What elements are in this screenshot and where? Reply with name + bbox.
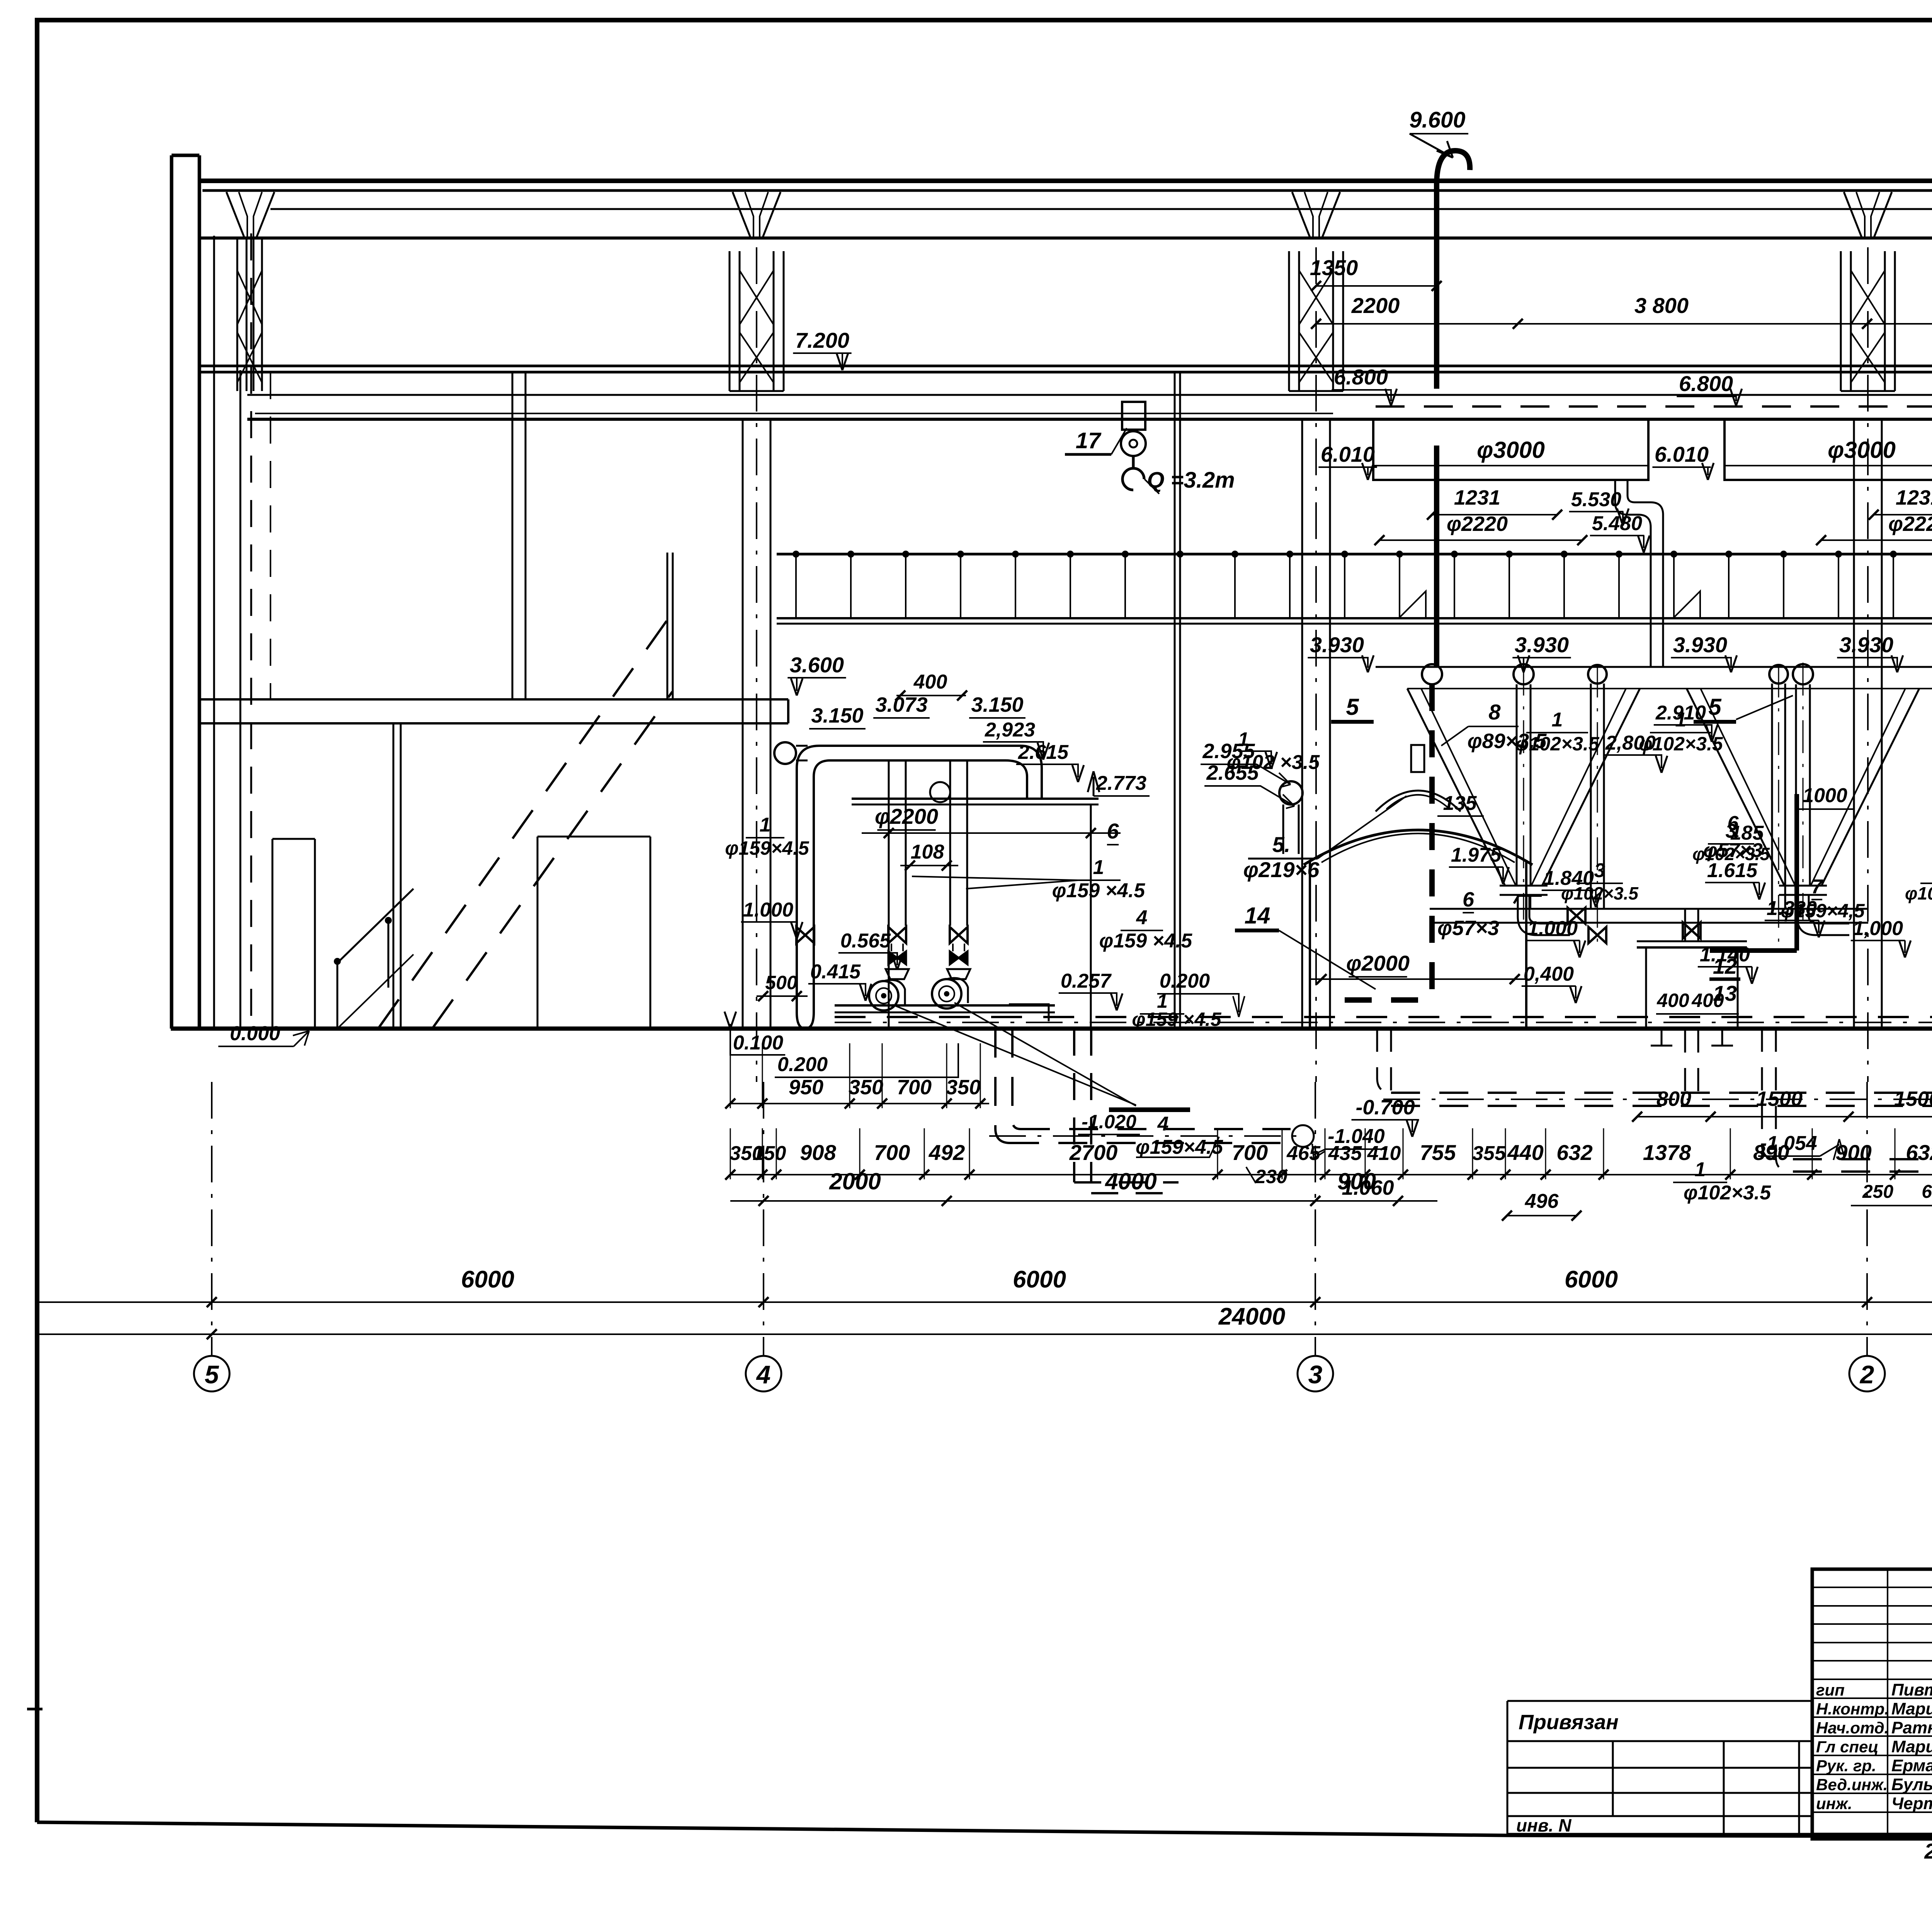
svg-text:-1.040: -1.040 (1328, 1125, 1385, 1148)
svg-text:3.150: 3.150 (971, 693, 1023, 716)
underground pipe 4 φ159x4.5 at -1.020 (995, 1029, 1010, 1143)
title block signature table (1812, 1569, 1932, 1839)
svg-text:Пивторак: Пивторак (1891, 1680, 1932, 1699)
dome tank 14 φ2000 body (1310, 862, 1526, 1027)
svg-text:135: 135 (1443, 792, 1477, 815)
ground floor line 0.000 (171, 1027, 1932, 1031)
svg-text:5: 5 (1708, 694, 1722, 720)
dimension row 2 (2000/4000/900) (730, 1200, 1437, 1202)
svg-text:3.930: 3.930 (1673, 633, 1727, 657)
wall at pump room right (1175, 372, 1180, 1029)
doorway opening right (537, 837, 650, 1029)
riser into tank 12/13 (1684, 909, 1686, 941)
svg-text:φ102×3.5: φ102×3.5 (1905, 883, 1932, 903)
tank 12/13 at x=4260 (1637, 946, 1747, 949)
ceiling line 7.200 lower (201, 371, 1932, 374)
header left stub with cap (774, 742, 796, 764)
axis circle 3 (1315, 1082, 1316, 1356)
svg-text:φ159×4.5: φ159×4.5 (725, 837, 810, 859)
roof truss intermediate line (270, 208, 1932, 210)
column axis 2 lower shaft (1854, 419, 1882, 1029)
svg-text:3.150: 3.150 (811, 704, 863, 727)
svg-text:6: 6 (1107, 819, 1119, 843)
channel end box (1009, 1004, 1049, 1021)
hopper top circle / pipe flange (1514, 664, 1534, 684)
dome left nozzle (1279, 781, 1303, 804)
roof slab top chord (201, 179, 1932, 183)
svg-text:6000: 6000 (461, 1266, 514, 1293)
dimension row 1 (detail) (730, 1174, 1932, 1175)
svg-text:Булычева: Булычева (1891, 1775, 1932, 1794)
valve on left riser (796, 927, 814, 943)
svg-text:2: 2 (1859, 1360, 1874, 1389)
svg-text:1,000: 1,000 (1853, 917, 1903, 940)
svg-text:Марионков: Марионков (1891, 1737, 1932, 1756)
svg-text:440: 440 (1507, 1140, 1543, 1165)
svg-text:230: 230 (1255, 1166, 1287, 1187)
svg-text:0.415: 0.415 (810, 961, 861, 983)
svg-text:1.330: 1.330 (1767, 897, 1817, 920)
dim row 2200/3800/3800/2200 (1316, 323, 1932, 325)
svg-text:108: 108 (911, 841, 944, 863)
column axis 3 battened upper part (1289, 251, 1343, 391)
vent pipe 8 φ89x3.5 bold riser with hook top (1437, 151, 1470, 389)
svg-text:φ2220: φ2220 (1888, 512, 1932, 536)
svg-text:5: 5 (205, 1360, 219, 1389)
svg-text:2,800: 2,800 (1605, 732, 1656, 754)
svg-text:1500: 1500 (1894, 1087, 1932, 1111)
svg-text:7: 7 (1811, 876, 1823, 898)
svg-text:5.530: 5.530 (1571, 488, 1621, 511)
svg-text:φ2220: φ2220 (1447, 512, 1508, 536)
svg-text:908: 908 (800, 1140, 836, 1165)
svg-text:1231: 1231 (1454, 486, 1500, 509)
svg-text:17: 17 (1076, 428, 1102, 453)
svg-text:Чертков: Чертков (1891, 1794, 1932, 1813)
pump 7 left (869, 981, 898, 1010)
partition wall above mezzanine (512, 372, 526, 699)
svg-text:3.073: 3.073 (875, 693, 927, 716)
end circle of pipe 4 (1292, 1125, 1314, 1147)
title block: privyazan box (1507, 1701, 1812, 1834)
svg-text:0.200: 0.200 (1160, 970, 1210, 992)
svg-text:350: 350 (946, 1076, 981, 1099)
svg-text:φ2200: φ2200 (875, 804, 938, 828)
svg-text:12: 12 (1713, 954, 1737, 978)
svg-text:2,923: 2,923 (985, 719, 1035, 741)
svg-text:φ57×3: φ57×3 (1437, 917, 1499, 940)
riser pipes to pumps (888, 760, 890, 926)
svg-text:-1.020: -1.020 (1082, 1111, 1136, 1133)
svg-text:6.800: 6.800 (1679, 371, 1733, 396)
tank φ2200 lid (852, 798, 1099, 800)
svg-text:700: 700 (874, 1140, 910, 1165)
svg-text:0.100: 0.100 (733, 1032, 783, 1054)
svg-text:φ159 ×4.5: φ159 ×4.5 (1052, 879, 1146, 902)
floor channel axis line (835, 1022, 1932, 1023)
svg-text:9.600: 9.600 (1409, 107, 1465, 133)
dimension row: pump area 950/350/700/350 (730, 1103, 989, 1104)
title block outer box (1812, 1569, 1932, 1839)
hopper (hydrocyclone) centered x=4666 (1687, 689, 1919, 886)
svg-text:φ102×3.5: φ102×3.5 (1515, 733, 1600, 755)
svg-text:950: 950 (789, 1076, 823, 1099)
svg-text:Марионков: Марионков (1891, 1699, 1932, 1718)
svg-text:3: 3 (1594, 859, 1605, 882)
svg-text:1.975: 1.975 (1451, 844, 1502, 866)
gate valve over pump x=2322 (888, 927, 906, 943)
dome tank cupola (1376, 791, 1461, 811)
roof V-strut at x=4834 (1844, 192, 1892, 237)
svg-text:0.257: 0.257 (1061, 970, 1112, 992)
battened column at left wall (237, 238, 262, 391)
doorway opening left (272, 839, 315, 1029)
svg-text:5.480: 5.480 (1592, 512, 1642, 535)
svg-text:0.200: 0.200 (777, 1053, 828, 1076)
check valve x=2481 (950, 951, 968, 964)
roof V-strut at x=648 (226, 192, 274, 237)
hopper top circle / pipe flange (1793, 664, 1813, 684)
svg-text:Q =3.2т: Q =3.2т (1147, 468, 1235, 493)
svg-text:1: 1 (1093, 856, 1104, 879)
svg-text:0.000: 0.000 (230, 1022, 280, 1045)
staircase railing (337, 889, 413, 1029)
central drop pipes below pump room (1074, 1029, 1179, 1193)
svg-text:4000: 4000 (1105, 1168, 1156, 1194)
svg-text:Н.контр.: Н.контр. (1816, 1700, 1889, 1718)
riser pipe circle x=4603 (1769, 665, 1788, 684)
svg-text:350: 350 (849, 1076, 883, 1099)
svg-text:1378: 1378 (1643, 1140, 1691, 1165)
svg-text:14: 14 (1245, 903, 1270, 929)
svg-text:632: 632 (1556, 1140, 1592, 1165)
svg-text:6.010: 6.010 (1321, 442, 1375, 466)
svg-text:Привязан: Привязан (1519, 1711, 1619, 1734)
tank 12/13 feet (1651, 1028, 1733, 1046)
svg-text:6.800: 6.800 (1334, 365, 1388, 389)
bold pipe L piece bay 3-2 (1710, 794, 1797, 951)
svg-text:755: 755 (1420, 1140, 1456, 1165)
svg-text:6: 6 (1463, 888, 1475, 911)
dimension row 4 (24000) (212, 1333, 1932, 1335)
svg-text:-0.700: -0.700 (1355, 1096, 1415, 1119)
svg-text:900: 900 (1337, 1168, 1376, 1194)
riser pipe circle x=4134 (1588, 665, 1607, 684)
svg-text:150: 150 (753, 1142, 786, 1165)
svg-text:5: 5 (1346, 694, 1359, 720)
dimension row 3 (6000 spans) (212, 1301, 1932, 1303)
svg-text:φ159×4.5: φ159×4.5 (1136, 1136, 1223, 1158)
leader lines from pumps to label 7 (893, 1003, 1136, 1106)
roof V-strut at x=1958 (733, 192, 781, 237)
svg-text:1: 1 (760, 814, 771, 836)
check valve x=2322 (888, 951, 906, 964)
hoist hook (1122, 456, 1144, 490)
column axis 4 battened upper part (730, 251, 784, 391)
svg-text:инж.: инж. (1816, 1794, 1852, 1813)
dim 1350 between column and pipe (1316, 285, 1437, 287)
svg-text:гип: гип (1816, 1681, 1845, 1699)
svg-text:φ3000: φ3000 (1828, 437, 1896, 463)
svg-text:1: 1 (1695, 1158, 1706, 1181)
U-bend at left riser bottom (797, 1002, 814, 1029)
svg-text:3 800: 3 800 (1634, 293, 1689, 318)
svg-text:-1.054: -1.054 (1760, 1132, 1817, 1155)
hopper support line (1376, 666, 1932, 668)
gate valve over pump x=2481 (950, 927, 968, 943)
svg-text:2.910: 2.910 (1655, 702, 1706, 724)
svg-text:8: 8 (1488, 700, 1501, 724)
svg-text:632: 632 (1906, 1140, 1932, 1165)
crane/monorail beam band (247, 394, 1932, 396)
svg-text:3: 3 (1308, 1360, 1323, 1389)
left border tick lines (37, 1301, 212, 1303)
svg-text:4: 4 (1136, 906, 1148, 929)
svg-text:Рук. гр.: Рук. гр. (1816, 1757, 1876, 1775)
svg-text:1.000: 1.000 (743, 899, 793, 921)
svg-text:355: 355 (1472, 1142, 1506, 1165)
svg-text:500: 500 (765, 972, 798, 993)
dome tank roof (1304, 830, 1532, 865)
svg-text:492: 492 (929, 1140, 965, 1165)
roof V-strut at x=3406 (1292, 192, 1340, 237)
svg-text:1: 1 (1552, 709, 1563, 731)
svg-text:24000: 24000 (1218, 1303, 1285, 1330)
axis circle 4 (763, 1082, 764, 1356)
suction header U-loop (797, 746, 1042, 1002)
roof truss bottom chord (201, 236, 1932, 240)
ceiling line 7.200 upper (201, 365, 1932, 367)
short partition right of stairs (667, 553, 673, 699)
svg-text:3.930: 3.930 (1515, 633, 1569, 657)
svg-text:185: 185 (1730, 822, 1764, 844)
svg-text:1500: 1500 (1756, 1087, 1803, 1111)
drain elbow pipe of tank 1 (1615, 480, 1651, 667)
svg-text:Ермакова: Ермакова (1891, 1756, 1932, 1775)
svg-text:φ102×3.5: φ102×3.5 (1684, 1182, 1771, 1204)
column axis 3 lower shaft (1302, 419, 1330, 1029)
reducer x=2322 (886, 969, 909, 979)
svg-text:3.930: 3.930 (1839, 633, 1893, 657)
svg-text:2200: 2200 (1351, 293, 1400, 318)
valve on riser x=4134 (1588, 927, 1606, 943)
svg-text:6.010: 6.010 (1655, 442, 1709, 466)
svg-text:Гл спец: Гл спец (1816, 1738, 1878, 1756)
svg-text:φ3000: φ3000 (1477, 437, 1545, 463)
svg-text:21179-01 9: 21179-01 9 (1924, 1839, 1932, 1863)
pump 7 right (932, 979, 961, 1009)
svg-text:5.: 5. (1272, 832, 1291, 857)
svg-text:3.600: 3.600 (790, 653, 844, 677)
mezzanine floor 3.600 (199, 699, 788, 723)
svg-text:φ219×6: φ219×6 (1243, 857, 1320, 882)
svg-text:3.930: 3.930 (1310, 633, 1364, 657)
dimension row 800/1500/1500/800 (1637, 1116, 1932, 1117)
svg-text:496: 496 (1525, 1190, 1559, 1213)
svg-text:4: 4 (1157, 1113, 1169, 1135)
svg-text:800: 800 (1656, 1087, 1691, 1111)
svg-text:0.565: 0.565 (840, 930, 891, 952)
svg-text:60: 60 (1922, 1182, 1932, 1202)
svg-text:1.615: 1.615 (1707, 859, 1758, 882)
svg-text:инв. N: инв. N (1516, 1815, 1571, 1835)
svg-text:7.200: 7.200 (795, 328, 849, 352)
hopper center riser pipe (1516, 684, 1518, 886)
tank φ2200 body (889, 804, 1091, 1027)
svg-text:2700: 2700 (1069, 1140, 1118, 1165)
svg-text:φ159 ×4.5: φ159 ×4.5 (1132, 1009, 1221, 1030)
vent pipe 8 dashed inside dome tank (1429, 684, 1435, 1000)
svg-text:400: 400 (1691, 990, 1724, 1011)
svg-text:2.773: 2.773 (1096, 772, 1146, 794)
underground pipe 1 φ102x3.5 at -1.054 (1793, 1158, 1932, 1160)
tap on run (1514, 896, 1542, 909)
svg-text:1.840: 1.840 (1544, 867, 1594, 889)
svg-text:6000: 6000 (1013, 1266, 1066, 1293)
horizontal pipe run bay 3-2 (1430, 908, 1868, 910)
svg-text:1231: 1231 (1896, 486, 1932, 509)
hopper bank top line (1407, 688, 1932, 689)
hopper center riser pipe (1795, 684, 1797, 886)
tank V φ3000 #1 (1373, 419, 1648, 480)
svg-text:φ102 ×3.5: φ102 ×3.5 (1227, 751, 1320, 774)
svg-text:1350: 1350 (1310, 255, 1358, 280)
svg-text:φ159 ×4.5: φ159 ×4.5 (1099, 930, 1193, 952)
column axis 4 lower shaft (743, 419, 770, 1029)
svg-text:700: 700 (1232, 1140, 1268, 1165)
staircase dashed flights (379, 618, 668, 1028)
underground pipe 3 φ102x3.5 at -0.700 (1391, 1092, 1932, 1094)
dashed drop pipes from tanks 12/13 (1685, 1029, 1698, 1093)
hopper (hydrocyclone) centered x=3943 (1407, 689, 1640, 886)
svg-text:250: 250 (1862, 1182, 1893, 1202)
lid small circle (930, 782, 950, 802)
svg-text:2.615: 2.615 (1018, 741, 1069, 764)
extension lines row pump dims (730, 1043, 731, 1108)
monorail hoist trolley 17 (1122, 402, 1145, 430)
pipe 8 top circle (1422, 664, 1442, 684)
service platform railing band 4.500 (777, 553, 1932, 556)
svg-text:Вед.инж.: Вед.инж. (1816, 1776, 1888, 1794)
pump foundation plate (835, 1004, 1055, 1007)
svg-text:1000: 1000 (1803, 784, 1847, 807)
column axis 2 battened upper part (1841, 251, 1895, 391)
cupola vent stub (1411, 745, 1424, 772)
tank V φ3000 #2 (1725, 419, 1932, 480)
svg-text:Нач.отд.: Нач.отд. (1816, 1719, 1889, 1737)
svg-text:1.000: 1.000 (1527, 917, 1578, 940)
svg-text:6000: 6000 (1565, 1266, 1618, 1293)
svg-text:φ2000: φ2000 (1346, 951, 1410, 975)
svg-text:400: 400 (913, 671, 947, 693)
svg-text:1: 1 (1238, 728, 1249, 750)
partition wall below mezzanine (393, 723, 401, 1029)
roof slab second line (202, 189, 1932, 192)
svg-text:2000: 2000 (829, 1168, 881, 1194)
reducer x=2481 (947, 969, 970, 979)
left wall (172, 155, 199, 1029)
axis circle 5 (211, 1082, 213, 1356)
svg-text:4: 4 (756, 1360, 771, 1389)
svg-text:400: 400 (1656, 990, 1689, 1011)
leader from 1 φ159 to pipes (912, 876, 1078, 889)
floor channel dashed pipe (835, 1016, 1932, 1018)
axis circle 2 (1866, 1082, 1868, 1356)
svg-text:Ратников: Ратников (1891, 1718, 1932, 1737)
svg-text:700: 700 (897, 1076, 932, 1099)
svg-text:0,400: 0,400 (1524, 963, 1574, 985)
